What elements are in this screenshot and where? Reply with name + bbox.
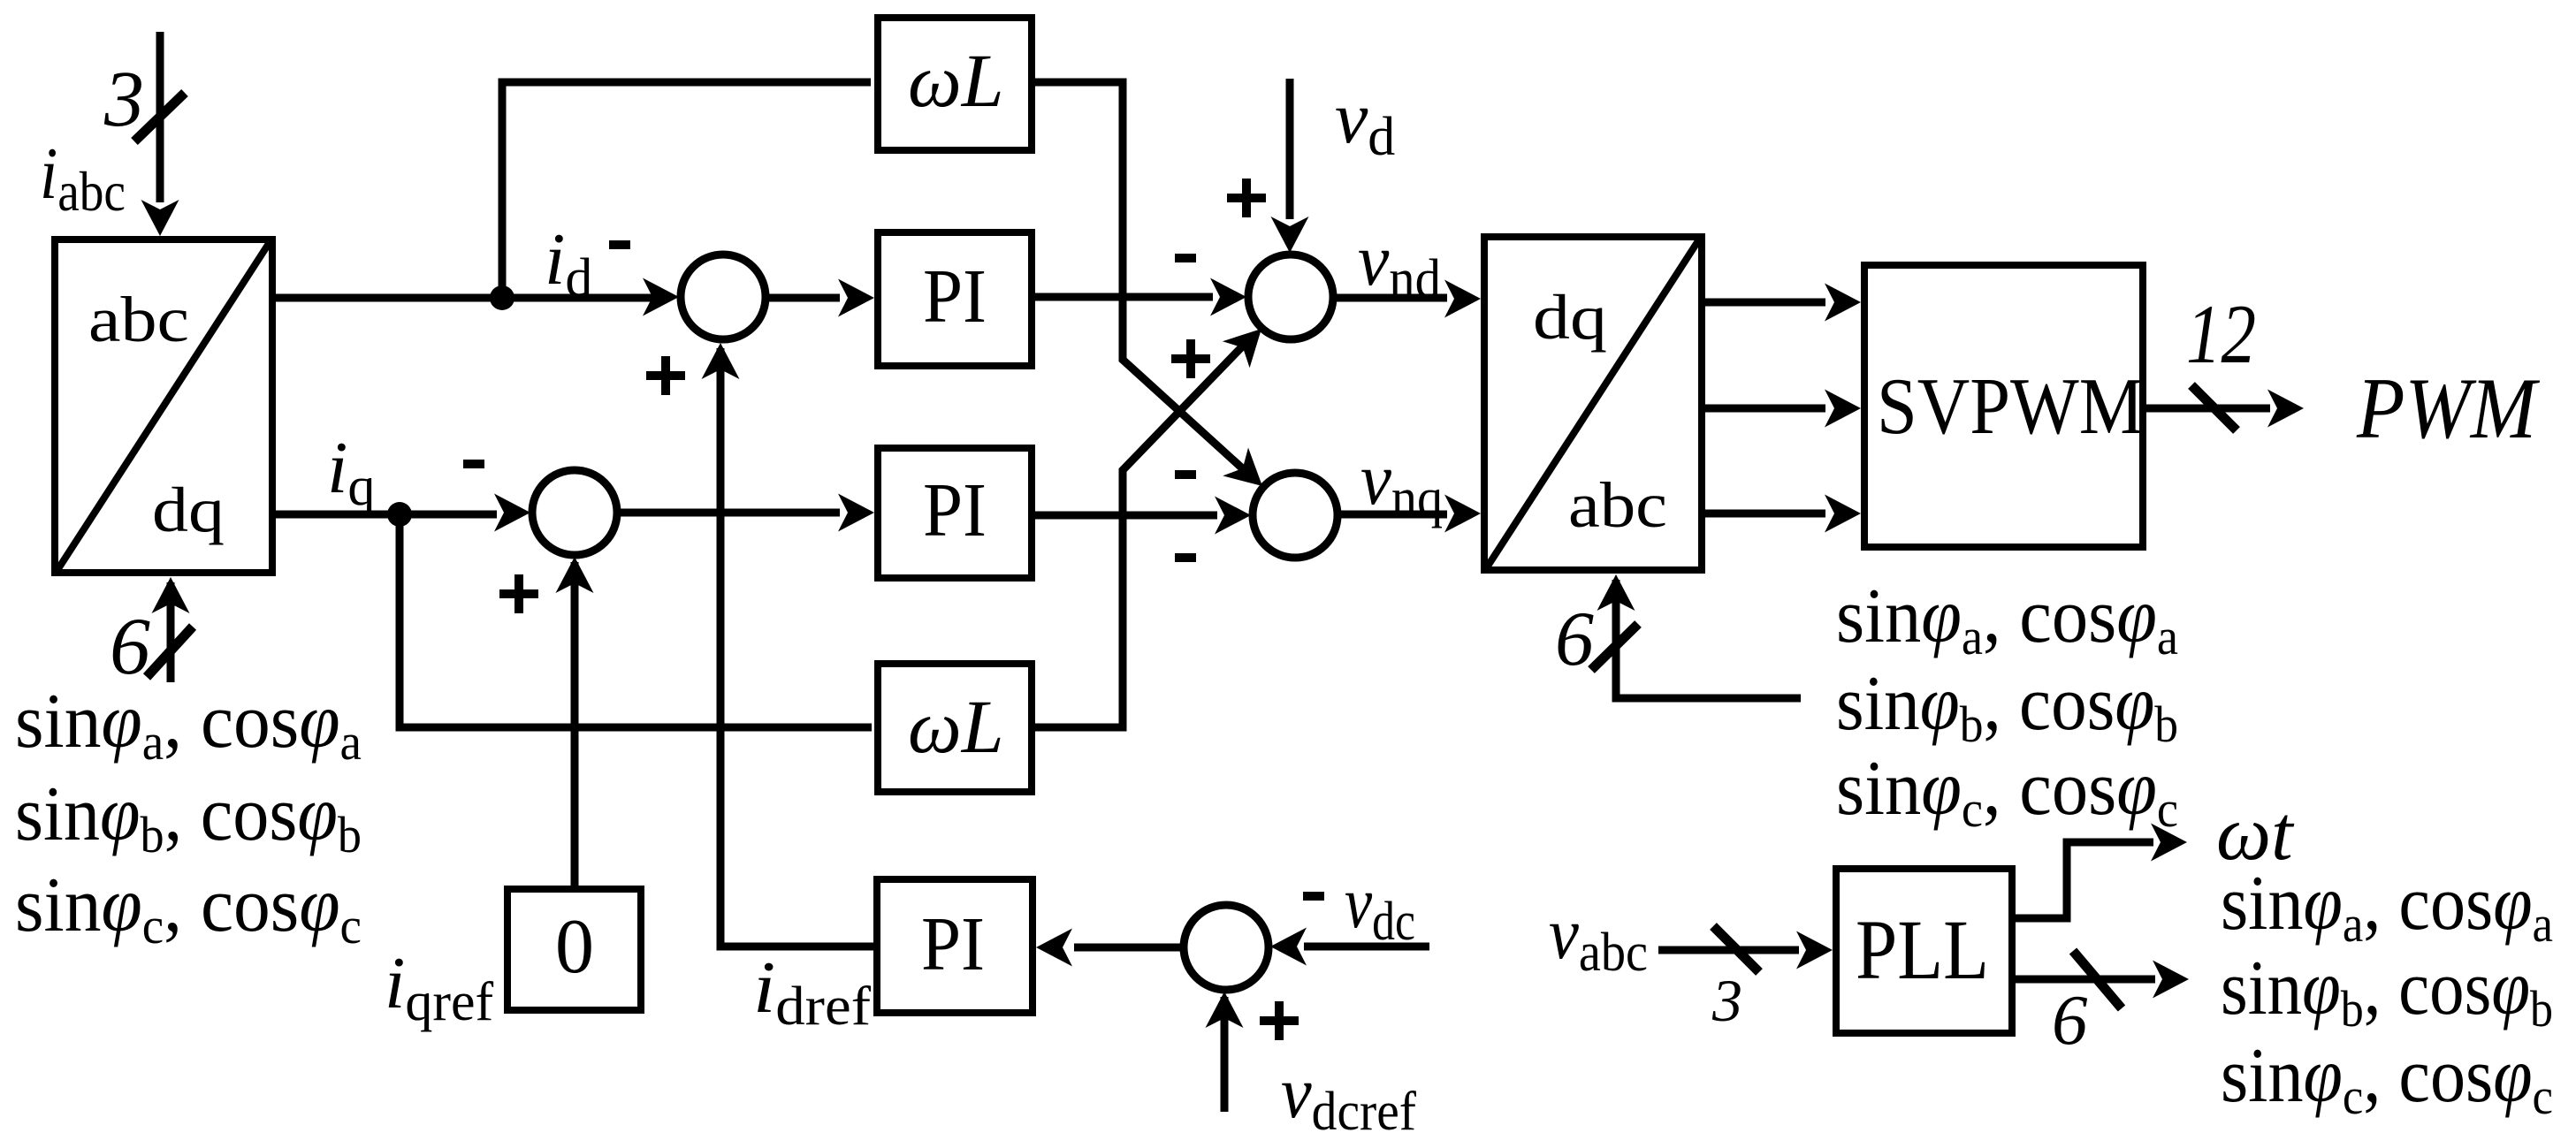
wire v_dc input to S5 with arrow: [1270, 928, 1429, 966]
label sin/cos phi_a PLL output line1: [2221, 861, 2553, 953]
bus slash 12 on PWM output: [2191, 385, 2237, 430]
label 6 (U2 bus width): [1555, 597, 1594, 682]
wire i_d junction to wL1: [502, 82, 871, 298]
wire sin/cos input to U1 with arrow: [152, 577, 190, 682]
wire wL2 output to cross-coupling: [1035, 339, 1249, 727]
label v_d: [1335, 77, 1395, 167]
label sin/cos phi_a U2 input line1: [1836, 574, 2178, 665]
wire wL1 output to cross-coupling: [1035, 82, 1248, 474]
svg-text:3: 3: [1711, 967, 1742, 1034]
summing junction S5 vdc error: [1184, 905, 1269, 990]
label v_abc: [1549, 893, 1648, 983]
wire PI2 output to S4: [1035, 497, 1251, 535]
label sin/cos phi_c U1 input line3: [15, 863, 362, 954]
block SVPWM modulator: [1864, 265, 2144, 547]
svg-text:sinφb, cosφb: sinφb, cosφb: [15, 772, 362, 863]
svg-text:ωL: ωL: [908, 38, 1004, 123]
svg-text:iabc: iabc: [40, 133, 126, 223]
svg-text:dq: dq: [1533, 282, 1607, 353]
sign plus at S2 bottom input: [499, 574, 538, 613]
label sin/cos phi_b PLL output line2: [2221, 946, 2553, 1038]
summing junction S2 q-current error: [532, 470, 617, 555]
svg-text:PI: PI: [923, 467, 987, 552]
block PLL: [1836, 869, 2012, 1033]
label i_dref: [753, 947, 871, 1037]
label PWM output: [2356, 361, 2541, 457]
svg-text:sinφb, cosφb: sinφb, cosφb: [1836, 661, 2178, 753]
wire U2 output a to SVPWM: [1705, 284, 1861, 322]
svg-text:6: 6: [2052, 980, 2088, 1060]
summing junction S4 v_nq: [1253, 473, 1338, 558]
sign minus at S4 diagonal input: [1175, 470, 1196, 479]
arrow cross-coupling into S3: [1223, 329, 1261, 368]
svg-text:12: 12: [2186, 287, 2256, 381]
label 6 (U1 bus width): [110, 601, 150, 691]
svg-text:PLL: PLL: [1856, 902, 1989, 997]
label v_nd: [1358, 219, 1441, 309]
label v_dcref: [1281, 1052, 1416, 1142]
sign plus at S3 diagonal input: [1171, 339, 1210, 378]
label v_nq: [1360, 438, 1443, 528]
bus slash 6 on PLL output: [2073, 951, 2122, 1008]
svg-text:SVPWM: SVPWM: [1877, 361, 2144, 451]
block wL1 omega-L gain d-axis: [878, 18, 1032, 150]
svg-text:6: 6: [1555, 597, 1594, 682]
label minus v_dc: [1303, 862, 1415, 952]
wire i_abc input with arrow: [141, 32, 179, 236]
wire SVPWM PWM output arrow: [2146, 390, 2304, 428]
svg-text:sinφa, cosφa: sinφa, cosφa: [15, 679, 362, 771]
sign minus at S1 left input: [609, 240, 630, 249]
sign plus at S5 bottom input: [1260, 1001, 1299, 1040]
svg-text:id: id: [545, 218, 592, 308]
svg-text:vdc: vdc: [1345, 862, 1415, 952]
junction dot on i_q: [387, 502, 412, 527]
bus slash 3-phase on i_abc: [134, 93, 185, 141]
svg-text:PWM: PWM: [2356, 361, 2541, 457]
svg-text:sinφc, cosφc: sinφc, cosφc: [1836, 746, 2178, 838]
block PI2 q-axis current PI: [878, 448, 1032, 578]
bus slash 3 on v_abc: [1713, 926, 1759, 972]
sign minus at S4 left input: [1175, 553, 1196, 562]
label i_abc: [40, 133, 126, 223]
block U2 dq-to-abc transform: [1484, 237, 1702, 570]
sign minus at S2 left input: [463, 460, 484, 468]
summing junction S1 d-current error: [681, 255, 766, 339]
block wL2 omega-L gain q-axis: [878, 664, 1032, 792]
label i_qref: [385, 942, 494, 1032]
summing junction S3 v_nd: [1248, 255, 1333, 339]
arrow i_d into S1: [643, 278, 679, 316]
wire S2 to PI2 with arrow: [619, 494, 874, 532]
wire i_d from U1 to S1: [276, 294, 654, 302]
svg-text:PI: PI: [921, 901, 985, 986]
label sin/cos phi_c U2 input line3: [1836, 746, 2178, 838]
svg-text:0: 0: [555, 904, 594, 990]
bus slash 6 on U1 input: [147, 627, 193, 677]
svg-text:PI: PI: [923, 253, 987, 338]
bus slash 6 on U2 input: [1591, 624, 1638, 670]
svg-text:ωL: ωL: [908, 684, 1004, 769]
label sin/cos phi_b U2 input line2: [1836, 661, 2178, 753]
block PI1 d-axis current PI: [878, 232, 1032, 366]
label i_q: [327, 427, 375, 517]
wire U2 output b to SVPWM: [1705, 390, 1861, 428]
svg-text:vdcref: vdcref: [1281, 1052, 1416, 1142]
wire S1 to PI1 with arrow: [767, 279, 874, 317]
wire S3 output v_nd to U2: [1335, 280, 1481, 318]
label omega-t: [2216, 791, 2295, 877]
wire sin/cos input to U2 with arrow: [1597, 574, 1802, 698]
svg-text:6: 6: [110, 601, 150, 691]
svg-text:3: 3: [103, 56, 144, 143]
svg-text:sinφa, cosφa: sinφa, cosφa: [1836, 574, 2178, 665]
arrow cross-coupling into S4: [1223, 448, 1262, 487]
wire U2 output c to SVPWM: [1705, 495, 1861, 533]
wire v_abc to PLL with arrow: [1658, 931, 1833, 969]
wire PI3 output up to S1: [702, 343, 874, 947]
svg-text:iq: iq: [327, 427, 375, 517]
svg-text:sinφb, cosφb: sinφb, cosφb: [2221, 946, 2553, 1038]
label 12 (PWM bus width): [2186, 287, 2256, 381]
label 3 (v_abc bus width): [1711, 967, 1742, 1034]
label i_d: [545, 218, 592, 308]
wire v_dcref input to S5 with arrow: [1206, 992, 1244, 1112]
label sin/cos phi_c PLL output line3: [2221, 1033, 2553, 1125]
svg-text:sinφc, cosφc: sinφc, cosφc: [15, 863, 362, 954]
wire 0 box to S2 with arrow: [556, 557, 594, 886]
svg-text:vd: vd: [1335, 77, 1395, 167]
block iqref constant 0: [507, 889, 641, 1010]
svg-text:vnq: vnq: [1360, 438, 1443, 528]
label sin/cos phi_b U1 input line2: [15, 772, 362, 863]
sign plus at S1 bottom input: [646, 356, 685, 395]
wire S5 to PI3 with arrow: [1036, 929, 1182, 967]
svg-text:dq: dq: [152, 475, 225, 545]
svg-text:abc: abc: [88, 284, 189, 355]
svg-text:vabc: vabc: [1549, 893, 1648, 983]
sign minus at S3 left input: [1175, 254, 1196, 262]
junction dot on i_d: [490, 285, 514, 310]
svg-text:vnd: vnd: [1358, 219, 1441, 309]
svg-text:sinφa, cosφa: sinφa, cosφa: [2221, 861, 2553, 953]
wire PLL omega-t output: [2016, 824, 2187, 919]
wire i_q junction to wL2: [400, 514, 872, 727]
block PI3 DC-voltage PI: [877, 879, 1033, 1013]
wire PLL sin/cos output with arrow: [2016, 961, 2189, 999]
block U1 abc-to-dq transform: [55, 239, 272, 573]
label sin/cos phi_a U1 input line1: [15, 679, 362, 771]
wire v_d input arrow: [1271, 79, 1309, 253]
label 3 (i_abc bus width): [103, 56, 144, 143]
wire i_q from U1 to S2: [276, 494, 530, 532]
svg-text:idref: idref: [753, 947, 871, 1037]
sign plus at S3 top input: [1227, 179, 1266, 217]
wire S4 output v_nq to U2: [1339, 495, 1481, 533]
svg-text:sinφc, cosφc: sinφc, cosφc: [2221, 1033, 2553, 1125]
svg-text:abc: abc: [1568, 469, 1667, 541]
svg-text:iqref: iqref: [385, 942, 494, 1032]
wire PI1 output to S3: [1035, 278, 1246, 316]
label 6 (PLL bus width): [2052, 980, 2088, 1060]
